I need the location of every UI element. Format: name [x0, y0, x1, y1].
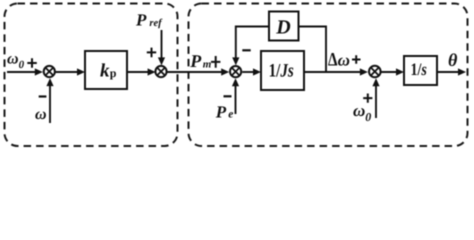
block 1/s: [404, 56, 437, 85]
svg-text:e: e: [228, 108, 233, 120]
plus sign at S2 top input: [147, 48, 156, 58]
wire Pe up into S3: [232, 78, 239, 114]
plus sign after Pm: [211, 56, 220, 68]
label Pm: [189, 51, 212, 71]
wire omega0 to S1: [7, 68, 43, 75]
wire S1 to kp block: [55, 68, 85, 75]
svg-text:ω: ω: [7, 51, 19, 68]
svg-text:1/s: 1/s: [411, 59, 428, 79]
svg-text:0: 0: [365, 110, 371, 124]
svg-text:ω: ω: [353, 101, 365, 120]
plus sign at S4 bottom input: [363, 94, 372, 103]
svg-text:ω: ω: [35, 106, 47, 123]
wire Pref down into S2: [158, 30, 165, 65]
wire omega up into S1: [46, 78, 53, 123]
wire feedback tap up to D: [299, 27, 327, 73]
dashed box left (governor): [5, 4, 178, 147]
plus sign after delta omega: [352, 55, 361, 64]
wire 1/Js to S4: [304, 68, 368, 75]
wire S4 to 1/s block: [380, 68, 404, 75]
wire S2 to S3: [167, 68, 229, 75]
minus sign at S3 top input: [242, 49, 250, 51]
svg-text:0: 0: [19, 59, 25, 71]
wire kp to S2: [127, 68, 156, 75]
minus sign at S3 bottom input: [224, 95, 232, 97]
svg-text:D: D: [275, 17, 290, 39]
svg-text:P: P: [215, 102, 227, 121]
label omega0 at S4: [353, 101, 371, 124]
dashed box right (swing dynamics): [189, 4, 468, 147]
label Pref: [135, 11, 163, 30]
block kp: [85, 51, 127, 89]
svg-text:1/Js: 1/Js: [269, 61, 294, 82]
svg-text:P: P: [189, 51, 202, 71]
svg-text:p: p: [110, 66, 117, 80]
svg-text:ref: ref: [149, 18, 163, 29]
label theta: [448, 50, 458, 70]
label Pe: [215, 102, 234, 121]
block 1/Js: [261, 51, 304, 90]
label delta omega: [328, 50, 350, 71]
svg-text:θ: θ: [448, 50, 458, 70]
block D: [269, 12, 299, 41]
wire S3 to 1/Js block: [242, 68, 261, 75]
label omega feedback: [35, 106, 47, 123]
svg-text:m: m: [203, 58, 212, 70]
summing junction S3: [230, 66, 241, 77]
wire 1/s to output: [437, 68, 466, 75]
summing junction S2: [155, 66, 166, 77]
label omega0 input: [7, 51, 25, 71]
svg-text:P: P: [135, 11, 147, 30]
svg-text:ω: ω: [338, 51, 350, 70]
summing junction S1: [44, 66, 55, 77]
plus sign at S1 left input: [27, 58, 37, 68]
minus sign at S1 bottom input: [39, 95, 47, 97]
svg-text:k: k: [100, 61, 110, 82]
wire omega0 up into S4: [372, 78, 379, 118]
svg-text:Δ: Δ: [328, 50, 338, 71]
summing junction S4: [369, 66, 381, 78]
wire D output down into S3: [232, 27, 269, 66]
